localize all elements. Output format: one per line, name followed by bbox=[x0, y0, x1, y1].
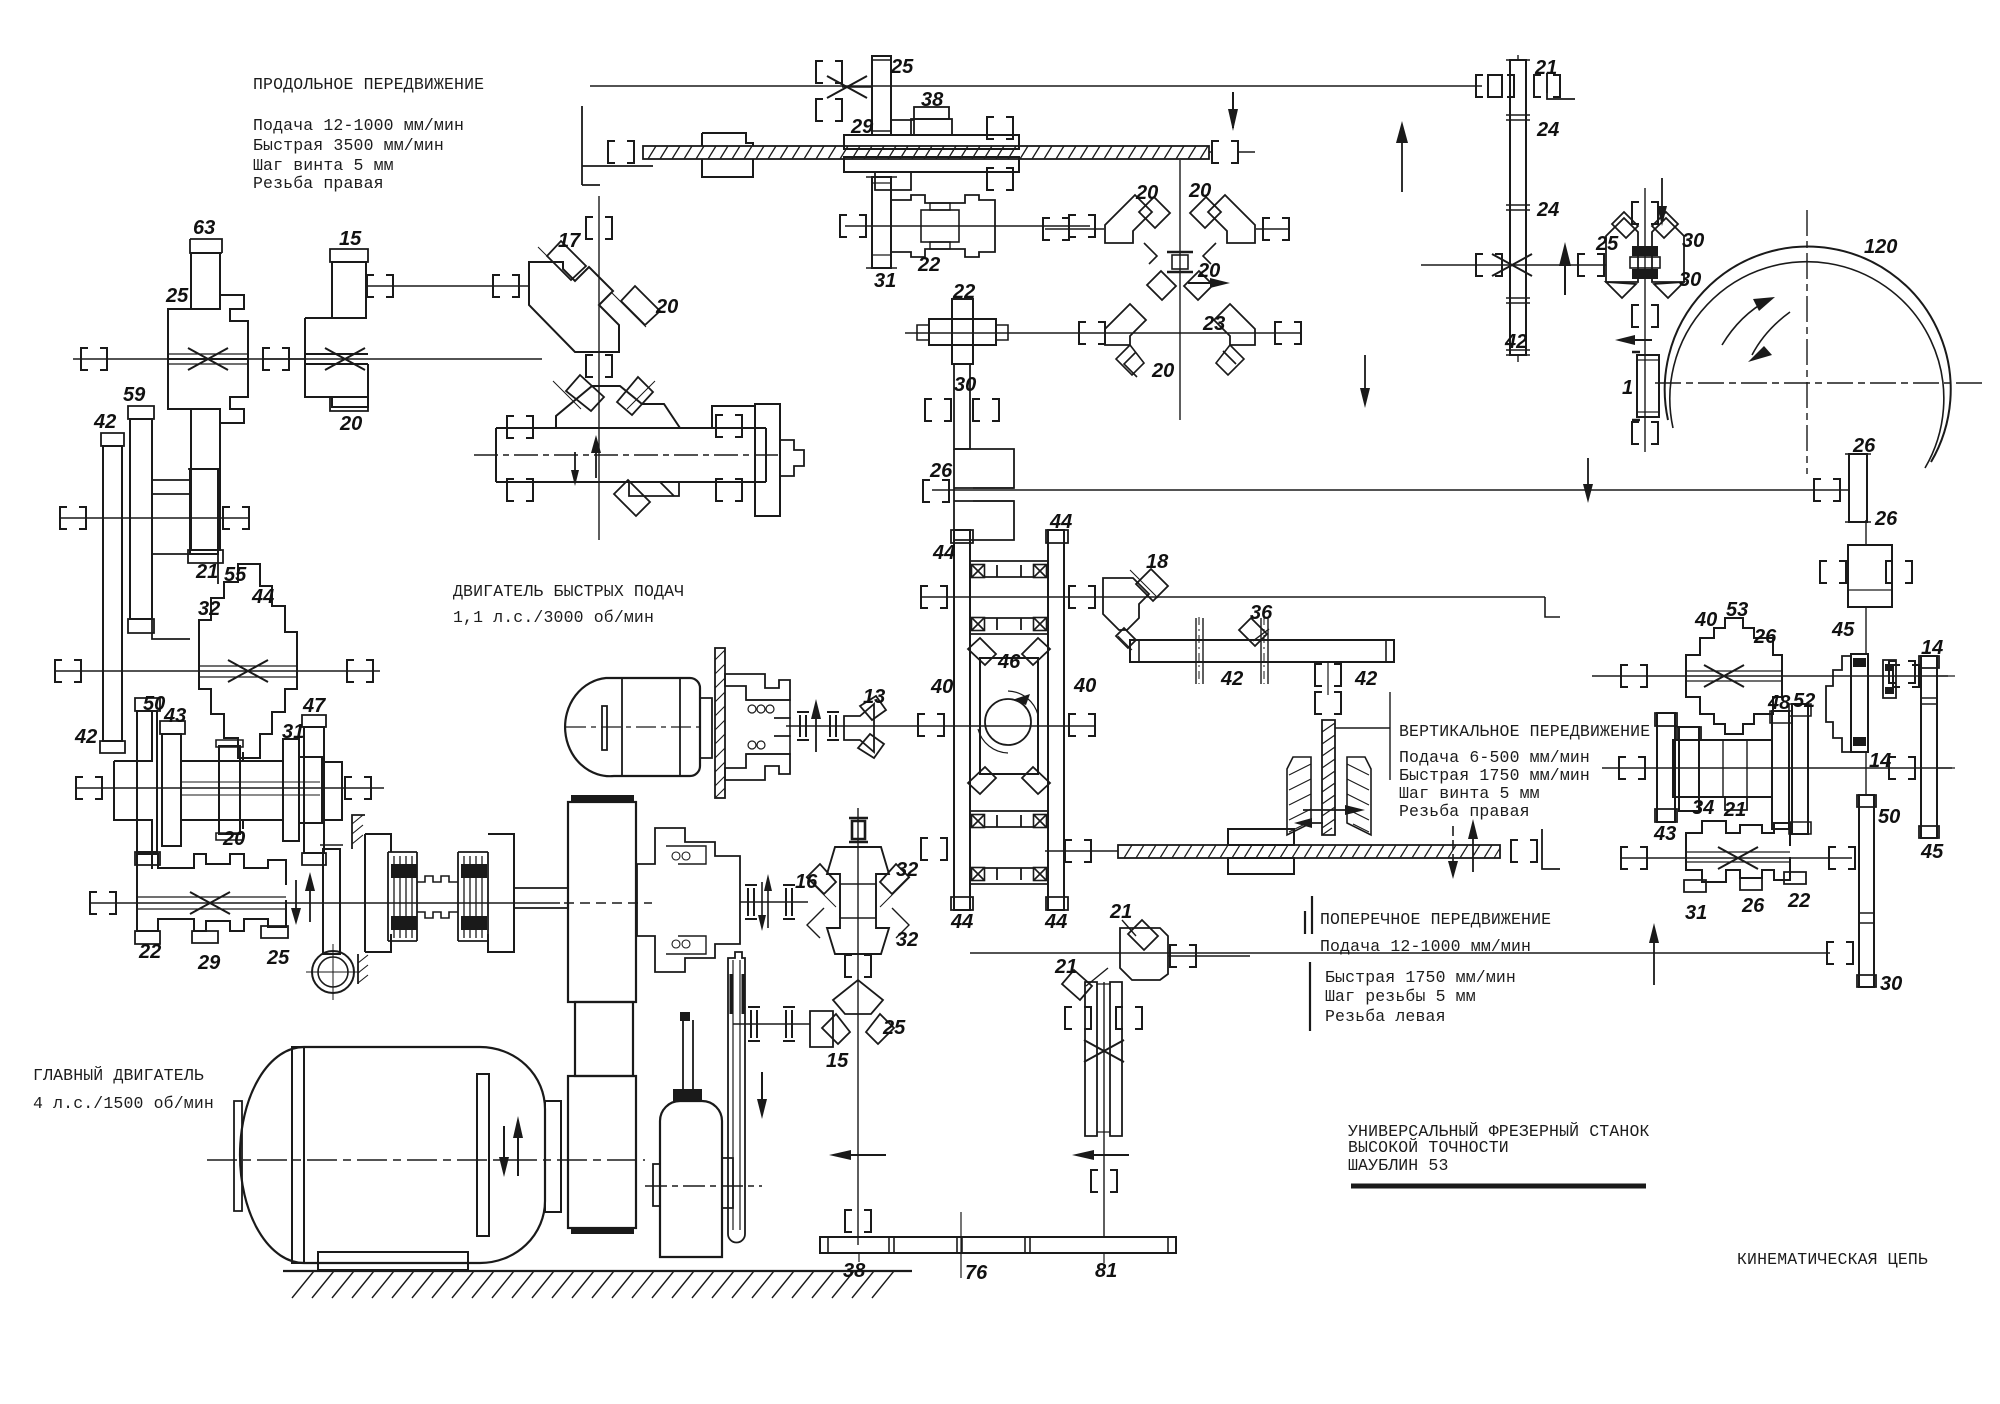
upper clutch block with boxed bearings bbox=[921, 561, 1095, 634]
text: title block bbox=[1348, 1121, 1650, 1175]
shaft line L7 gears 63-15 bbox=[73, 358, 542, 360]
motor flange / wall bbox=[700, 648, 725, 798]
vertical shaft through bevel 16 cluster bbox=[857, 808, 859, 1245]
svg-text:1: 1 bbox=[1622, 377, 1633, 399]
bearing brackets left of gear 25 bbox=[816, 61, 872, 121]
brackets on line L17 bbox=[90, 892, 116, 914]
fast motor axis bbox=[566, 726, 700, 728]
brackets on line L10 bbox=[60, 507, 249, 529]
svg-text:29: 29 bbox=[197, 952, 221, 974]
ground hatch bbox=[283, 1271, 912, 1298]
belt loop bbox=[728, 952, 745, 1243]
bevel cluster 25/30/30 bbox=[1606, 188, 1684, 452]
svg-text:Быстрая 1750 мм/мин: Быстрая 1750 мм/мин bbox=[1399, 766, 1590, 785]
svg-text:45: 45 bbox=[1831, 619, 1855, 641]
svg-text:Подача 6-500 мм/мин: Подача 6-500 мм/мин bbox=[1399, 748, 1590, 767]
shaft line L1 top bbox=[590, 73, 1547, 93]
arrow right at bevel middle bbox=[1188, 282, 1226, 284]
svg-text:Быстрая 3500 мм/мин: Быстрая 3500 мм/мин bbox=[253, 136, 444, 155]
clutch 22 body bbox=[891, 195, 995, 257]
svg-text:20: 20 bbox=[339, 413, 362, 435]
brackets on R2 bbox=[1619, 757, 1915, 779]
bracket on L23 right bbox=[1578, 254, 1604, 276]
shaft L17 dashed through drum bbox=[564, 902, 652, 904]
svg-text:14: 14 bbox=[1921, 637, 1943, 659]
arrows at cross screw bbox=[1448, 819, 1478, 879]
svg-text:25: 25 bbox=[1595, 233, 1619, 255]
arrow down on L9 right bbox=[1583, 458, 1593, 503]
svg-text:15: 15 bbox=[339, 228, 362, 250]
X at line L23 bbox=[1492, 254, 1532, 276]
svg-text:24: 24 bbox=[1536, 119, 1559, 141]
svg-text:26: 26 bbox=[1874, 508, 1898, 530]
svg-text:26: 26 bbox=[1852, 435, 1876, 457]
svg-text:24: 24 bbox=[1536, 199, 1559, 221]
svg-text:50: 50 bbox=[143, 693, 165, 715]
arrow down right-mid bbox=[1360, 355, 1370, 408]
svg-text:44: 44 bbox=[950, 911, 973, 933]
svg-text:ДВИГАТЕЛЬ БЫСТРЫХ ПОДАЧ: ДВИГАТЕЛЬ БЫСТРЫХ ПОДАЧ bbox=[453, 582, 684, 601]
cross screw nut bbox=[1228, 829, 1294, 874]
arrow down above bevel cluster bbox=[1657, 178, 1667, 226]
svg-text:ПОПЕРЕЧНОЕ ПЕРЕДВИЖЕНИЕ: ПОПЕРЕЧНОЕ ПЕРЕДВИЖЕНИЕ bbox=[1320, 910, 1551, 929]
up arrow on L18 at x1654 bbox=[1649, 923, 1659, 985]
dash-dot verticals near bar 42s bbox=[1199, 617, 1264, 684]
svg-text:63: 63 bbox=[193, 217, 215, 239]
right cluster line R3 bbox=[1620, 857, 1852, 859]
svg-text:21: 21 bbox=[1054, 956, 1077, 978]
cluster 31/26/22 on R3 bbox=[1684, 821, 1806, 892]
clutch bearings bbox=[840, 215, 1095, 237]
bevel cluster 14/25 with wide bar bbox=[496, 375, 804, 516]
svg-text:44: 44 bbox=[251, 586, 274, 608]
small coupling right of pinion 14 bbox=[1883, 660, 1919, 698]
svg-text:26: 26 bbox=[1741, 895, 1765, 917]
screw nut bbox=[702, 133, 753, 177]
svg-text:50: 50 bbox=[1878, 806, 1900, 828]
svg-text:21: 21 bbox=[1723, 799, 1746, 821]
text: cross movement bbox=[1320, 910, 1551, 1026]
shaft 30 column bbox=[925, 364, 999, 449]
gear 47 tall bbox=[302, 715, 326, 865]
twin column 44 right bbox=[1046, 530, 1068, 910]
shaft line L3 clutch row bbox=[845, 225, 1090, 227]
bearing bracket below 16 cluster bbox=[845, 955, 871, 977]
bevel cluster 16/32/32 bbox=[806, 847, 910, 954]
bearing bracket above bar (left) bbox=[845, 1210, 871, 1232]
cluster 40/53/26 on R1 bbox=[1686, 618, 1782, 734]
shaft line L13 bbox=[786, 725, 1095, 727]
twin column 44 left bbox=[951, 530, 973, 910]
top bevel cluster 20/20 bbox=[1043, 160, 1290, 420]
small up/down arrows near bar bbox=[571, 435, 601, 486]
svg-text:Подача 12-1000 мм/мин: Подача 12-1000 мм/мин bbox=[253, 116, 464, 135]
svg-text:42: 42 bbox=[93, 411, 116, 433]
shaft line L11 bbox=[921, 597, 1560, 617]
svg-text:52: 52 bbox=[1793, 690, 1815, 712]
svg-text:42: 42 bbox=[1220, 668, 1243, 690]
svg-text:45: 45 bbox=[1920, 841, 1944, 863]
sight circle (bearing eye) bbox=[306, 944, 360, 1000]
shaft line L12 bbox=[55, 670, 380, 672]
bottom gear bar 38/76/81 bbox=[820, 1212, 1176, 1278]
gear 26 (top right, on L9) bbox=[1814, 454, 1871, 522]
svg-text:1,1 л.с./3000 об/мин: 1,1 л.с./3000 об/мин bbox=[453, 608, 654, 627]
svg-text:Резьба правая: Резьба правая bbox=[1399, 802, 1530, 821]
svg-text:59: 59 bbox=[123, 384, 146, 406]
svg-text:47: 47 bbox=[302, 695, 326, 717]
gear 26 middle column bbox=[923, 449, 1014, 540]
bevel pair 21/21 bbox=[1062, 920, 1250, 1000]
gear 31 column bbox=[866, 177, 897, 268]
svg-text:30: 30 bbox=[954, 374, 976, 396]
far right column 14/45 bbox=[1919, 656, 1955, 838]
svg-text:ВЫСОКОЙ ТОЧНОСТИ: ВЫСОКОЙ ТОЧНОСТИ bbox=[1348, 1137, 1509, 1157]
arrow down on line L1 right bbox=[1232, 92, 1234, 128]
fast feed motor body bbox=[565, 678, 700, 776]
shaft line L17 bbox=[89, 902, 560, 904]
svg-text:26: 26 bbox=[1753, 626, 1777, 648]
up arrow right of column bbox=[1559, 242, 1571, 295]
screw left support bbox=[582, 106, 653, 185]
clutch bell on drum bbox=[637, 828, 740, 972]
gear 25 on screw bbox=[872, 56, 914, 135]
text: vertical movement bbox=[1399, 722, 1650, 821]
vertical gear column 21/24/24/42 bbox=[1476, 55, 1560, 362]
X on R3 bbox=[1718, 847, 1758, 869]
svg-text:32: 32 bbox=[896, 859, 918, 881]
coupling between 63 and 15 bbox=[262, 348, 305, 370]
bottom right vertical shaft with gear 81 bbox=[1065, 982, 1142, 1237]
svg-text:76: 76 bbox=[965, 1262, 988, 1284]
gear 63 with flange 25 bbox=[168, 239, 248, 563]
cross screw (hatched) bbox=[1118, 845, 1500, 858]
up/down arrows right of bottom cluster bbox=[291, 872, 315, 925]
svg-text:55: 55 bbox=[224, 564, 247, 586]
vertical line through 17 cluster bbox=[598, 196, 600, 540]
text: main motor bbox=[33, 1065, 214, 1113]
bevel 13 bbox=[844, 696, 886, 758]
svg-text:42: 42 bbox=[74, 726, 97, 748]
svg-text:38: 38 bbox=[843, 1260, 866, 1282]
svg-text:36: 36 bbox=[1250, 602, 1273, 624]
svg-text:120: 120 bbox=[1864, 236, 1897, 258]
svg-text:43: 43 bbox=[1653, 823, 1676, 845]
motor output flange bbox=[545, 1101, 561, 1212]
lower bevel cluster 20/23 bbox=[1079, 271, 1301, 377]
svg-text:20: 20 bbox=[1188, 180, 1211, 202]
svg-text:53: 53 bbox=[1726, 599, 1748, 621]
shaft line L5 15-to-17 bbox=[368, 285, 530, 287]
svg-text:14: 14 bbox=[1869, 750, 1891, 772]
bevel cluster 17/20 bbox=[529, 241, 660, 352]
svg-text:21: 21 bbox=[1109, 901, 1132, 923]
svg-text:ВЕРТИКАЛЬНОЕ ПЕРЕДВИЖЕНИЕ: ВЕРТИКАЛЬНОЕ ПЕРЕДВИЖЕНИЕ bbox=[1399, 722, 1650, 741]
column 59 bbox=[128, 406, 154, 633]
svg-text:17: 17 bbox=[558, 230, 581, 252]
bracket above 17 bbox=[586, 217, 612, 239]
svg-text:20: 20 bbox=[1151, 360, 1174, 382]
svg-text:42: 42 bbox=[1354, 668, 1377, 690]
svg-text:43: 43 bbox=[163, 705, 186, 727]
svg-text:Шаг резьбы 5 мм: Шаг резьбы 5 мм bbox=[1325, 987, 1476, 1006]
svg-text:21: 21 bbox=[1534, 57, 1557, 79]
motor base pad bbox=[318, 1252, 468, 1270]
bevel 14-25 bar center line bbox=[474, 454, 780, 456]
svg-text:КИНЕМАТИЧЕСКАЯ ЦЕПЬ: КИНЕМАТИЧЕСКАЯ ЦЕПЬ bbox=[1737, 1250, 1928, 1269]
text tick lines near cross movement block bbox=[1305, 896, 1312, 1031]
X at gear 15 bbox=[325, 348, 365, 370]
svg-text:31: 31 bbox=[282, 721, 304, 743]
sliding cluster 32/55/44 on L12 bbox=[199, 564, 297, 758]
svg-text:48: 48 bbox=[1767, 692, 1791, 714]
svg-text:Резьба правая: Резьба правая bbox=[253, 174, 384, 193]
svg-text:29: 29 bbox=[850, 116, 874, 138]
text: longitudinal movement title bbox=[253, 75, 484, 193]
svg-text:22: 22 bbox=[917, 254, 940, 276]
vertical feed screw (hatched) bbox=[1322, 692, 1390, 835]
svg-text:22: 22 bbox=[952, 281, 975, 303]
hatched nut cones bbox=[1287, 757, 1371, 835]
arrow up near column 24 bbox=[1396, 121, 1408, 192]
clutch housing on wall bbox=[725, 674, 790, 780]
X on shaft at gear 25 bbox=[827, 76, 867, 98]
lower clutch block with boxed bearings bbox=[921, 811, 1048, 884]
X on gear 81 shaft bbox=[1084, 1040, 1124, 1062]
clutch left disc bbox=[320, 845, 343, 954]
svg-text:38: 38 bbox=[921, 89, 944, 111]
svg-text:44: 44 bbox=[932, 542, 955, 564]
L1 right end bracket bbox=[1488, 73, 1575, 99]
svg-text:40: 40 bbox=[1694, 609, 1717, 631]
arrow left near pinion 1 bbox=[1615, 335, 1652, 345]
small motor (bottom) bbox=[653, 1012, 733, 1257]
svg-text:25: 25 bbox=[882, 1017, 906, 1039]
svg-text:ГЛАВНЫЙ ДВИГАТЕЛЬ: ГЛАВНЫЙ ДВИГАТЕЛЬ bbox=[33, 1065, 204, 1085]
svg-text:40: 40 bbox=[1073, 675, 1096, 697]
svg-text:20: 20 bbox=[655, 296, 678, 318]
couplings on shaft to bevel 13 bbox=[797, 712, 839, 740]
svg-text:32: 32 bbox=[198, 598, 220, 620]
shaft from clutch to bevel cluster bbox=[740, 874, 808, 931]
svg-text:25: 25 bbox=[165, 285, 189, 307]
X at gear 63 bbox=[188, 348, 228, 370]
brackets on R1 left bbox=[1621, 661, 1915, 687]
svg-text:16: 16 bbox=[795, 871, 818, 893]
svg-text:ПРОДОЛЬНОЕ ПЕРЕДВИЖЕНИЕ: ПРОДОЛЬНОЕ ПЕРЕДВИЖЕНИЕ bbox=[253, 75, 484, 94]
up/down arrows at motor right bbox=[499, 1116, 523, 1177]
main motor body bbox=[234, 1047, 545, 1263]
svg-text:25: 25 bbox=[266, 947, 290, 969]
shaft line L10 bbox=[60, 517, 250, 519]
title underline rule bbox=[1351, 1184, 1646, 1189]
left arrow on vertical shaft 858 bbox=[829, 1150, 886, 1160]
bracket below 17 cluster bbox=[586, 355, 612, 377]
cross gear 22 on middle column bbox=[917, 299, 1008, 364]
svg-text:15: 15 bbox=[826, 1050, 849, 1072]
svg-text:Шаг винта 5 мм: Шаг винта 5 мм bbox=[1399, 784, 1540, 803]
svg-text:30: 30 bbox=[1682, 230, 1704, 252]
svg-text:22: 22 bbox=[138, 941, 161, 963]
svg-text:13: 13 bbox=[863, 686, 885, 708]
arrows at vertical screw bottom bbox=[1294, 805, 1365, 828]
brackets under bar and vertical screw bbox=[1315, 662, 1341, 714]
main multi-disc clutch bbox=[365, 834, 568, 952]
bracket left of 15 top bbox=[367, 275, 519, 297]
pinion 1 bbox=[1632, 352, 1659, 444]
svg-text:22: 22 bbox=[1787, 890, 1810, 912]
svg-text:30: 30 bbox=[1679, 269, 1701, 291]
screw right bearing bbox=[1209, 141, 1255, 163]
up arrow at fast motor shaft bbox=[811, 699, 821, 752]
wall hatch strips near main clutch bbox=[352, 815, 368, 984]
svg-text:81: 81 bbox=[1095, 1260, 1117, 1282]
cluster 50/43/20/31/47 on L14 bbox=[114, 698, 342, 869]
lead screw (hatched) bbox=[643, 146, 1209, 159]
svg-text:26: 26 bbox=[929, 460, 953, 482]
bevel pair 25/15 bbox=[810, 980, 894, 1047]
svg-text:4 л.с./1500 об/мин: 4 л.с./1500 об/мин bbox=[33, 1094, 214, 1113]
shaft line L9 long middle bbox=[932, 489, 1849, 491]
svg-text:23: 23 bbox=[1202, 313, 1225, 335]
shaft line L14 bbox=[76, 787, 384, 789]
svg-text:42: 42 bbox=[1504, 331, 1527, 353]
left column 42 long bbox=[100, 433, 125, 753]
right cluster line R2 bbox=[1602, 767, 1952, 769]
big ring gear 120 (double arc with bottom gap) bbox=[1665, 247, 1951, 468]
bottom cluster 22/29/25 on L17 bbox=[135, 854, 288, 944]
svg-text:20: 20 bbox=[222, 828, 245, 850]
X at bottom cluster bbox=[190, 892, 230, 914]
shaft line L18 cross-feed long bbox=[970, 952, 1830, 954]
gear 15 with 20 bbox=[305, 249, 368, 411]
brackets on line L14 bbox=[76, 777, 371, 799]
svg-text:20: 20 bbox=[1135, 182, 1158, 204]
X on R1 bbox=[1704, 665, 1744, 687]
svg-text:46: 46 bbox=[997, 651, 1021, 673]
gear bar 36/42/42 bbox=[1130, 618, 1394, 684]
shaft from clutch to bevel 25/15 bbox=[733, 1007, 810, 1041]
svg-text:44: 44 bbox=[1044, 911, 1067, 933]
text: kinematic chain bbox=[1737, 1250, 1928, 1269]
right vertical shaft: gear block 26 / pinion 14 / gear 50 bbox=[1820, 520, 1912, 987]
bracket at gear 50 bottom line bbox=[1827, 942, 1853, 964]
svg-text:Шаг винта 5 мм: Шаг винта 5 мм bbox=[253, 156, 394, 175]
circle center line vertical bbox=[1806, 210, 1808, 474]
text: fast feed motor bbox=[453, 582, 684, 627]
circle center line horizontal bbox=[1655, 382, 1985, 384]
hub band and column 21 bbox=[152, 469, 220, 639]
main vertical drum bbox=[568, 795, 636, 1234]
svg-text:Резьба левая: Резьба левая bbox=[1325, 1007, 1446, 1026]
gear 38 big wheel bbox=[844, 107, 1019, 190]
X at cluster 32/55 bbox=[228, 660, 268, 682]
svg-text:34: 34 bbox=[1692, 797, 1714, 819]
brackets on R3 bbox=[1621, 847, 1855, 869]
svg-text:31: 31 bbox=[874, 270, 896, 292]
bevel 18 bbox=[1103, 569, 1168, 650]
svg-text:44: 44 bbox=[1049, 511, 1072, 533]
shaft line L23 right top bbox=[1421, 264, 1606, 266]
svg-text:Быстрая 1750 мм/мин: Быстрая 1750 мм/мин bbox=[1325, 968, 1516, 987]
worm drum 46 with circle bbox=[918, 638, 1095, 794]
svg-text:ШАУБЛИН 53: ШАУБЛИН 53 bbox=[1348, 1156, 1449, 1175]
svg-text:31: 31 bbox=[1685, 902, 1707, 924]
left arrow at shaft 81 bbox=[1072, 1150, 1129, 1160]
right cluster line R1 bbox=[1592, 675, 1948, 677]
cross screw left line and bearings bbox=[1045, 840, 1118, 862]
svg-text:30: 30 bbox=[1880, 973, 1902, 995]
small motor axis bbox=[645, 1185, 762, 1187]
svg-text:20: 20 bbox=[1197, 260, 1220, 282]
rotation arrows inside ring bbox=[1722, 297, 1790, 362]
svg-text:32: 32 bbox=[896, 929, 918, 951]
svg-text:25: 25 bbox=[890, 56, 914, 78]
svg-text:21: 21 bbox=[195, 561, 218, 583]
black coupling mark top bbox=[849, 818, 868, 842]
down arrow right of belt bbox=[757, 1072, 767, 1119]
shaft L7 end brackets bbox=[81, 348, 107, 370]
shaft line L6 bevel row bbox=[905, 332, 1300, 334]
big cluster on R2 : 43/34/21/48/52 bbox=[1655, 704, 1811, 834]
motor axis dash-dot bbox=[207, 1159, 645, 1161]
cross screw right end bbox=[1511, 829, 1560, 869]
brackets on line L12 bbox=[55, 660, 373, 682]
svg-text:40: 40 bbox=[930, 676, 953, 698]
svg-text:18: 18 bbox=[1146, 551, 1169, 573]
